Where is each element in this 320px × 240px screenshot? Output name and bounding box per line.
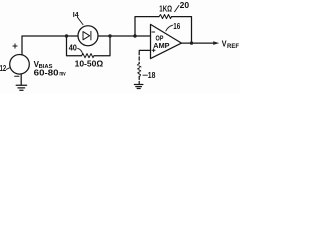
wire: VBIAS bottom stem (20, 74, 22, 85)
voltage source V12 circle (10, 55, 30, 75)
current source I4 circle (78, 26, 98, 46)
svg-text:60-80: 60-80 (34, 68, 60, 77)
node dot inverting input (133, 34, 136, 37)
ground (VBIAS) (16, 85, 26, 90)
wire: resistor 40 branch right (94, 36, 110, 56)
leader line 12 (6, 68, 9, 70)
arrow to VREF (213, 41, 219, 45)
svg-text:mv: mv (59, 70, 65, 77)
wire: dashed stem to ground (138, 77, 140, 84)
ground (resistor 18) (134, 85, 143, 89)
leader slash for 20 (175, 5, 179, 11)
node dot right of parallel pair (108, 34, 111, 37)
minus sign below VBIAS (15, 75, 19, 77)
leader line I4 (77, 17, 83, 24)
resistor 18 dashed zigzag (137, 64, 141, 77)
wire: resistor 40 branch left (67, 36, 82, 56)
svg-text:40: 40 (69, 44, 78, 53)
svg-text:I4: I4 (73, 12, 79, 19)
current source internal symbol (83, 31, 91, 40)
wire: feedback up and left segment (135, 17, 159, 36)
svg-text:18: 18 (148, 70, 156, 80)
op-amp minus sign (152, 31, 155, 33)
wire: op-amp output (182, 42, 215, 44)
svg-text:10-50Ω: 10-50Ω (75, 58, 104, 68)
node dot left of parallel pair (65, 34, 68, 37)
svg-text:1KΩ: 1KΩ (159, 4, 172, 14)
wire: dashed branch to resistor 18 (138, 52, 140, 64)
leader line 16 (166, 25, 173, 31)
leader line 40 (78, 48, 83, 54)
svg-text:12: 12 (0, 64, 7, 73)
svg-text:REF: REF (227, 44, 239, 50)
resistor 1K zigzag (159, 15, 172, 19)
leader dash for 18 (143, 74, 147, 76)
wire: plus input (139, 49, 150, 51)
node dot output (190, 41, 193, 44)
op-amp plus sign (152, 49, 155, 52)
op-amp U16 triangle (151, 24, 182, 58)
svg-text:20: 20 (180, 0, 190, 10)
wire: feedback right and down segment (172, 17, 192, 43)
svg-text:AMP: AMP (153, 41, 169, 50)
resistor 40 zigzag (82, 54, 95, 58)
plus sign above VBIAS (13, 44, 17, 48)
wire: rail from current source to op-amp minus input (98, 35, 151, 37)
wire: VBIAS top stem and left rail (22, 36, 78, 55)
svg-text:16: 16 (173, 22, 180, 31)
